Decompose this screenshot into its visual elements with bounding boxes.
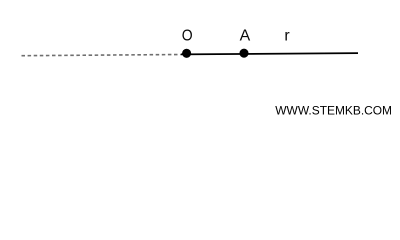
- wire: solid ray r from O through A: [181, 53, 358, 54]
- node A: point dot on ray: [239, 49, 248, 58]
- svg-text:r: r: [284, 28, 290, 45]
- node O: endpoint dot: [182, 49, 191, 58]
- svg-text:WWW.STEMKB.COM: WWW.STEMKB.COM: [275, 104, 392, 118]
- wire: dashed construction line (left extension of ray): [22, 55, 182, 56]
- svg-text:A: A: [240, 28, 251, 45]
- svg-text:O: O: [182, 28, 193, 45]
